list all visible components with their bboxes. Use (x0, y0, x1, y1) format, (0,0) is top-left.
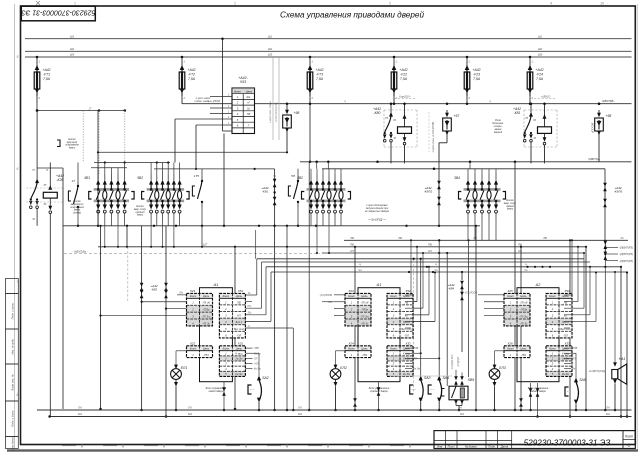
svg-text:К защ: К защ (235, 351, 243, 355)
svg-text:Х24: Х24 (347, 341, 354, 345)
svg-text:+97: +97 (454, 114, 460, 118)
wire stubs cluster3 up (310, 169, 312, 174)
svg-text:Конт: Конт (507, 347, 514, 351)
wire riser x627 (626, 273, 628, 417)
bus line 2 (25, 50, 632, 52)
svg-text:ЛЛ: ЛЛ (572, 357, 577, 360)
wire harness H1 (63, 225, 480, 227)
svg-text:ЛА: ЛА (605, 406, 610, 410)
svg-text:ЛЗВ: ЛЗВ (253, 347, 259, 350)
svg-text:7,5А: 7,5А (188, 77, 196, 81)
svg-text:ЛВ: ЛВ (404, 300, 409, 304)
svg-text:КЛ: КЛ (564, 314, 568, 318)
svg-text:НА1: НА1 (619, 357, 626, 361)
module A1 bottom drop (223, 382, 225, 410)
svg-text:-Л5 Зщ: -Л5 Зщ (519, 315, 529, 319)
fuse F71 (36, 57, 38, 66)
svg-text:Х22: Х22 (189, 341, 196, 345)
svg-text:Конт: Конт (223, 294, 230, 298)
module A1m left stubs (334, 294, 345, 296)
svg-text:5В1: 5В1 (84, 176, 90, 180)
connector pins K91 (274, 169, 276, 179)
svg-text:+ОЛ: +ОЛ (254, 363, 259, 366)
svg-text:Ш1: Ш1 (247, 95, 251, 99)
wire harness H6b (257, 258, 584, 260)
svg-text:Конт: Конт (549, 347, 556, 351)
svg-text:-(Л)ВУЛ(РЗ): -(Л)ВУЛ(РЗ) (619, 253, 633, 256)
svg-text:ЛВ: ЛВ (349, 236, 354, 240)
svg-text:Схема управления приводами две: Схема управления приводами дверей (280, 10, 424, 19)
connector pins K83 (165, 226, 167, 283)
svg-text:3: 3 (389, 1, 391, 5)
svg-text:МА: МА (298, 412, 302, 416)
wire dashed riser x413 (413, 260, 415, 394)
svg-text:Цепь: Цепь (403, 347, 410, 351)
svg-text:-Л5 Зс: -Л5 Зс (202, 321, 211, 325)
svg-text:Х25: Х25 (506, 289, 513, 293)
diode unit Y98 (right) (598, 102, 601, 105)
svg-text:Ш3: Ш3 (70, 53, 75, 57)
svg-text:Ч(ВУЛ)В-: Ч(ВУЛ)В- (602, 99, 615, 103)
connector X53 table (232, 88, 255, 134)
svg-text:ЛА: ЛА (297, 406, 302, 410)
svg-text:Конт: Конт (190, 294, 197, 298)
svg-text:Дата: Дата (500, 445, 509, 449)
svg-text:-Л51: -Л51 (521, 353, 527, 357)
relay K80 with coil (384, 109, 417, 111)
module А1 box (358, 288, 400, 382)
svg-text:ЛА: ЛА (187, 406, 192, 410)
svg-text:-Л5 Зщ: -Л5 Зщ (202, 315, 212, 319)
svg-text:-(Сл)ПООВ: -(Сл)ПООВ (464, 291, 477, 294)
wire harness H6 dashed (64, 253, 320, 255)
svg-text:Цепь: Цепь (361, 347, 368, 351)
module A1m BR stubs (405, 347, 412, 349)
lamp ЕЛ1 (174, 365, 178, 369)
svg-text:-Л51: -Л51 (203, 353, 209, 357)
svg-text:к цепи сигн. А-УАЗ (ОЗВ): к цепи сигн. А-УАЗ (ОЗВ) (431, 122, 435, 153)
svg-text:ЅА2: ЅА2 (262, 376, 269, 380)
svg-text:Кн.Зм: Кн.Зм (562, 372, 569, 376)
fuse F73 (309, 57, 311, 66)
lamp ЕЛ3 (493, 365, 497, 369)
switch SA5 (574, 378, 578, 383)
svg-text:Ш2: Ш2 (70, 47, 75, 51)
module A1m BL stub to lamp (336, 350, 346, 352)
svg-text:3В2: 3В2 (297, 176, 303, 180)
svg-text:Цепь: Цепь (236, 294, 243, 298)
svg-text:Кнопки: Кнопки (506, 200, 514, 202)
svg-text:-Л5 Зщ: -Л5 Зщ (360, 315, 370, 319)
svg-text:+А42: +А42 (42, 68, 50, 72)
left margin stamp boxes (6, 279, 19, 294)
wire harness H5 (322, 252, 584, 254)
svg-text:-Л53а: -Л53а (361, 308, 369, 312)
switch SA2 (257, 376, 261, 381)
svg-text:Подп. и дата: Подп. и дата (11, 303, 15, 320)
svg-text:Конт: Конт (190, 347, 197, 351)
svg-text:-ОЛ: -ОЛ (237, 333, 242, 337)
svg-text:-(Сл)ПООВ: -(Сл)ПООВ (319, 294, 332, 297)
wire harness H3 (344, 239, 628, 241)
zone marks bottom margin (62, 445, 76, 447)
svg-text:7,5А: 7,5А (400, 77, 408, 81)
connector pins K9Л3 (604, 183, 606, 207)
svg-text:+А42: +А42 (315, 68, 323, 72)
svg-text:двери: двери (137, 214, 144, 217)
svg-text:+А42: +А42 (399, 68, 407, 72)
svg-text:Ш2: Ш2 (538, 47, 543, 51)
fuse F72 (181, 57, 183, 66)
svg-text:-Л5 Зс: -Л5 Зс (520, 321, 529, 325)
svg-text:Ш3: Ш3 (268, 53, 273, 57)
wire: feed line under fuses (182, 103, 632, 105)
svg-text:— Бл(ЗПД) —: — Бл(ЗПД) — (367, 218, 386, 222)
svg-text:Подп.: Подп. (488, 445, 496, 449)
svg-text:ПФ: ПФ (428, 243, 432, 247)
svg-text:-(ОЗДВ)Л: -(ОЗДВ)Л (458, 357, 460, 368)
svg-text:дверей: дверей (494, 131, 503, 134)
svg-text:-ОЛ: -ОЛ (404, 333, 409, 337)
svg-text:-К9Л2: -К9Л2 (424, 190, 433, 194)
wire dotted drop x83 (82, 111, 84, 163)
wire harness H4 (98, 246, 586, 248)
wire harness H6c (262, 261, 590, 263)
wire deep drops cluster3 (316, 226, 318, 253)
svg-text:ЛВ: ЛВ (542, 236, 547, 240)
wire riser x604 (604, 259, 606, 410)
svg-text:ЅАЗ: ЅАЗ (424, 376, 431, 380)
svg-text:11Г: 11Г (203, 242, 208, 246)
title block: doc number (622, 431, 624, 449)
fuse F22 (393, 57, 395, 66)
wire riser x521 (520, 247, 522, 399)
svg-text:-Л5 Зс: -Л5 Зс (361, 321, 370, 325)
svg-text:-К82: -К82 (151, 288, 157, 292)
svg-text:-Л53а: -Л53а (520, 308, 528, 312)
svg-text:открывания: открывания (70, 207, 84, 209)
svg-text:Х53: Х53 (563, 289, 570, 293)
wire Ч(ВУЛ)А (300, 161, 632, 163)
switch SA3 (419, 376, 423, 381)
svg-text:Конт: Конт (390, 347, 397, 351)
svg-text:Цепь: Цепь (246, 89, 253, 93)
svg-text:средней двери: средней двери (370, 389, 388, 393)
svg-text:не закрытых дверях: не закрытых дверях (365, 210, 390, 213)
svg-text:Цепь: Цепь (520, 294, 527, 298)
svg-text:529230-3700003-31 ЭЗ: 529230-3700003-31 ЭЗ (21, 8, 96, 15)
wire riser x196 (201, 226, 203, 247)
svg-text:Ш1: Ш1 (70, 34, 75, 38)
svg-text:ПФ: ПФ (350, 243, 354, 247)
svg-text:Кн.Зм: Кн.Зм (254, 368, 261, 371)
svg-text:-(ООО)В: -(ООО)В (591, 123, 595, 134)
svg-text:- А(ВУЛ)Ва -: - А(ВУЛ)Ва - (72, 249, 87, 253)
svg-text:Цепь: Цепь (203, 294, 210, 298)
wire left riser (62, 168, 64, 409)
svg-text:-Л5 об: -Л5 об (520, 301, 528, 305)
svg-text:МА: МА (78, 412, 82, 416)
buzzer НА1 (614, 272, 616, 362)
svg-text:КЛ: КЛ (428, 249, 432, 253)
svg-text:ЅВ9: ЅВ9 (468, 378, 475, 382)
stamp: document number (rotated) (21, 6, 95, 21)
svg-text:Блк д: Блк д (236, 320, 243, 324)
svg-text:МА: МА (606, 412, 610, 416)
svg-text:7,5А: 7,5А (43, 77, 51, 81)
svg-text:Чи: Чи (358, 268, 362, 272)
svg-text:№ докум.: № докум. (465, 445, 478, 449)
svg-text:Чи: Чи (524, 268, 528, 272)
wire below X53 (223, 134, 225, 226)
svg-text:задней: задней (505, 205, 514, 208)
svg-text:-К84: -К84 (448, 287, 454, 291)
connector pins K84 (461, 273, 463, 281)
svg-text:Конт: Конт (348, 294, 355, 298)
bus bottom ЛА (37, 409, 632, 411)
wire riser x515 (514, 162, 516, 410)
wire stubs cluster2 to rail (150, 163, 152, 175)
bus bottom МА (50, 416, 632, 418)
svg-text:Ш2: Ш2 (268, 47, 273, 51)
manual-open bracket note (57, 140, 60, 147)
svg-text:-(Л)ВУЛ(РЗ): -(Л)ВУЛ(РЗ) (619, 247, 633, 250)
svg-text:Кнопки: Кнопки (68, 139, 76, 141)
svg-text:Кн.Зм: Кн.Зм (235, 372, 242, 376)
svg-text:Кир(ОУ)-: Кир(ОУ)- (399, 95, 410, 99)
svg-text:-F24: -F24 (536, 73, 543, 77)
wire dotted drop x124 (124, 111, 126, 175)
svg-text:Конт: Конт (223, 347, 230, 351)
svg-text:-Л53а: -Л53а (202, 308, 210, 312)
svg-text:+98: +98 (606, 114, 612, 118)
svg-text:Подп. и дата: Подп. и дата (11, 410, 15, 427)
svg-text:подсв. салона: подсв. салона (195, 99, 212, 103)
fuse F23 (466, 57, 468, 66)
svg-text:Изм: Изм (437, 445, 442, 449)
svg-text:Х31: Х31 (237, 341, 244, 345)
connector pins K82 (141, 226, 143, 283)
contact cluster 5В2 (147, 188, 185, 191)
svg-text:Ш1: Ш1 (538, 34, 543, 38)
contact cluster 3В4 (464, 188, 501, 191)
wire stubs cluster4 up (467, 169, 469, 174)
svg-text:ЛА: ЛА (619, 237, 624, 240)
svg-text:Цепь: Цепь (203, 347, 210, 351)
svg-text:ЛЗВ: ЛЗВ (413, 347, 419, 350)
wire riser x100 (100, 226, 102, 409)
title block (434, 431, 635, 449)
module А1 box (200, 288, 233, 382)
svg-text:-F71: -F71 (43, 73, 50, 77)
wire riser x235 (234, 247, 236, 409)
svg-text:Цепь: Цепь (562, 347, 569, 351)
svg-text:ЕЛ3: ЕЛ3 (499, 366, 506, 370)
svg-text:Х23: Х23 (347, 289, 354, 293)
sheet edge (14, 4, 16, 450)
wire harness H7 (266, 266, 621, 268)
svg-text:Конт: Конт (507, 294, 514, 298)
svg-text:ЅА4: ЅА4 (442, 376, 449, 380)
svg-text:ЛА: ЛА (77, 406, 82, 410)
svg-text:Х21: Х21 (189, 289, 196, 293)
svg-text:ЛВ: ЛВ (563, 300, 568, 304)
svg-text:Вкл отл: Вкл отл (401, 327, 412, 331)
svg-text:ЛЛ: ЛЛ (253, 357, 258, 360)
svg-text:ЛЛ: ЛЛ (413, 357, 418, 360)
wire H0b (154, 168, 275, 170)
svg-text:Вкл отл: Вкл отл (234, 327, 245, 331)
wire drops cluster3 (310, 217, 312, 226)
svg-text:-К80: -К80 (374, 111, 381, 115)
pushbutton SB9 (455, 370, 457, 377)
wire riser x621 (620, 267, 622, 417)
lamp ЕЛ2 (334, 365, 338, 369)
svg-text:Чи: Чи (434, 268, 438, 272)
contact cluster 5В1 (94, 188, 129, 191)
svg-text:5: 5 (17, 55, 19, 59)
svg-text:Конт: Конт (234, 89, 242, 93)
wire riser x310 down (309, 104, 311, 162)
svg-text:2: 2 (233, 1, 236, 5)
svg-text:ЛЗВ: ЛЗВ (572, 347, 578, 350)
svg-text:Х33: Х33 (563, 341, 570, 345)
svg-text:Конт: Конт (549, 294, 556, 298)
svg-text:4: 4 (550, 1, 552, 5)
wire drops cluster1 (97, 217, 99, 226)
svg-text:ЗЦ-: ЗЦ- (248, 312, 252, 315)
svg-text:МА: МА (460, 412, 464, 416)
svg-text:левой двери: левой двери (208, 389, 224, 393)
svg-text:Х53: Х53 (239, 80, 246, 84)
wire riser x255 (255, 230, 257, 259)
svg-text:-(ПС)В: -(ПС)В (212, 99, 220, 103)
contact cluster 3В2 (307, 188, 346, 191)
svg-text:к цепи сигн. лампы: к цепи сигн. лампы (269, 101, 272, 123)
svg-text:А1: А1 (213, 283, 219, 287)
svg-text:-F22: -F22 (400, 73, 407, 77)
svg-text:ЛА: ЛА (457, 406, 462, 410)
module A2 bottom drops (530, 383, 532, 410)
module A1 BL stub to lamp (176, 350, 187, 352)
module A1m right bends (411, 294, 413, 296)
svg-text:Х26: Х26 (506, 341, 513, 345)
wire H0a (98, 151, 287, 153)
svg-text:Цепь: Цепь (361, 294, 368, 298)
svg-text:+98: +98 (294, 111, 300, 115)
svg-text:Цепь: Цепь (236, 347, 243, 351)
svg-text:Блк д: Блк д (562, 320, 569, 324)
svg-text:-ОЛ: -ОЛ (563, 333, 568, 337)
svg-text:Кн.Зм: Кн.Зм (414, 368, 421, 371)
svg-text:Пб-: Пб- (248, 305, 252, 308)
wire riser x586 (585, 247, 587, 410)
module A2 BL stub to lamp (495, 350, 505, 352)
svg-text:(вручную): (вручную) (67, 142, 78, 144)
wire riser x468 (468, 240, 470, 377)
svg-text:Конт: Конт (348, 347, 355, 351)
svg-text:+А42: +А42 (187, 68, 195, 72)
diode unit Y97 (446, 102, 449, 105)
svg-text:Кн.Зм: Кн.Зм (403, 372, 410, 376)
svg-text:7,5А: 7,5А (473, 77, 481, 81)
wire riser x476 (475, 226, 477, 410)
switch SA4 (437, 376, 441, 381)
connector pins K9Л2 (438, 162, 440, 181)
exit pins to right edge (604, 241, 606, 260)
wire riser x447 (446, 253, 448, 386)
svg-text:КЛ: КЛ (350, 249, 354, 253)
bus line 3 (25, 56, 632, 58)
svg-text:Инв.№подл.: Инв.№подл. (11, 435, 15, 450)
svg-text:-С: -С (248, 325, 251, 328)
svg-text:(слева): (слева) (73, 213, 81, 215)
svg-text:5В2: 5В2 (137, 176, 143, 180)
svg-text:+Сл(ВУЛ)(ОЗД): +Сл(ВУЛ)(ОЗД) (588, 370, 605, 373)
svg-text:6: 6 (17, 167, 19, 171)
svg-text:средней: средней (136, 211, 146, 214)
module A1m bottom drop (378, 382, 380, 410)
svg-text:Лист: Лист (446, 445, 455, 449)
svg-text:авар. откр.: авар. откр. (134, 209, 147, 211)
svg-text:Взам. инв. №: Взам. инв. № (11, 374, 15, 390)
svg-text:КЛ: КЛ (237, 314, 241, 318)
wire: left fuse branch (36, 104, 38, 111)
svg-text:Ч: Ч (359, 263, 361, 267)
wire stubs cluster1 to rail (97, 168, 99, 174)
wire rail above clusters 1-2 (94, 162, 170, 164)
wire riser x355 (354, 247, 356, 399)
svg-text:Ув.Зм: Ув.Зм (254, 352, 261, 355)
wire riser x127 (126, 226, 128, 247)
diode unit Y98 (left) (286, 102, 289, 105)
wire riser x287b (286, 226, 288, 410)
wire deep drops cluster1-2 (104, 226, 106, 247)
svg-text:-Л5 об: -Л5 об (361, 301, 369, 305)
svg-text:А2: А2 (535, 283, 542, 287)
svg-text:Ув.Зм: Ув.Зм (235, 357, 242, 361)
svg-text:аварийного: аварийного (71, 203, 84, 206)
svg-text:-К91: -К91 (262, 190, 269, 194)
svg-text:Х51: Х51 (237, 289, 244, 293)
svg-text:Кнопки: Кнопки (136, 206, 144, 208)
svg-text:ЕЛ2: ЕЛ2 (340, 366, 347, 370)
relay K2B contact (36, 111, 38, 180)
svg-text:двери: двери (69, 146, 76, 149)
svg-text:А1: А1 (376, 283, 382, 287)
wire riser x570 (569, 240, 571, 416)
svg-text:открывания: открывания (65, 145, 79, 147)
contact S2 (mid single) (201, 176, 203, 180)
svg-text:Лист: Лист (624, 435, 634, 439)
module A2 left stubs (478, 294, 504, 296)
svg-text:двери: двери (74, 209, 81, 212)
svg-text:-F72: -F72 (188, 73, 195, 77)
svg-text:ЅА5: ЅА5 (579, 378, 586, 382)
svg-text:Инв. № дубл.: Инв. № дубл. (11, 338, 15, 354)
svg-text:Ч(ВУЛ)А: Ч(ВУЛ)А (588, 157, 600, 161)
svg-text:7,5А: 7,5А (316, 77, 324, 81)
svg-text:16: 16 (600, 1, 604, 5)
wire harness H8 (271, 271, 627, 273)
svg-text:+А42: +А42 (535, 68, 543, 72)
svg-text:Ш1: Ш1 (268, 34, 273, 38)
module A2 right bends (564, 294, 572, 296)
svg-text:3В4: 3В4 (454, 176, 460, 180)
svg-text:-Л51: -Л51 (362, 353, 368, 357)
module А2 box (517, 288, 559, 382)
module A2 BR stubs (564, 347, 571, 349)
